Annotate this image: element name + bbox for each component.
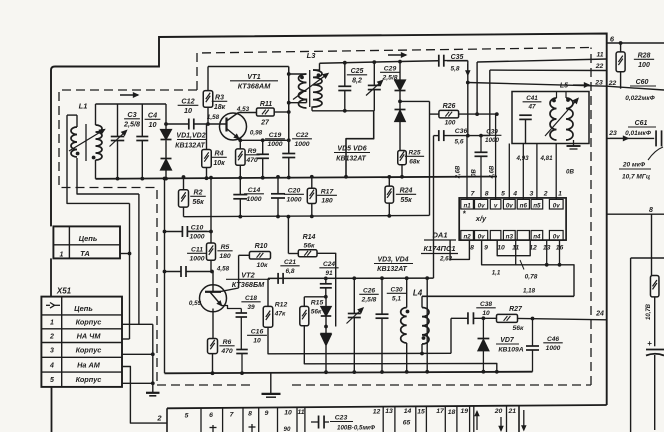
capacitor C11 (165, 266, 214, 277)
wire VT1 bias top (208, 66, 289, 68)
capacitor C3 label (123, 110, 140, 129)
svg-text:R4: R4 (215, 151, 224, 158)
label 22 right (608, 80, 617, 87)
svg-text:2,6В: 2,6В (456, 165, 462, 179)
svg-text:4: 4 (49, 362, 54, 369)
wire antenna-left staircase to riser A (67, 115, 130, 203)
junction dot C26 bus (352, 370, 356, 374)
arrow down in strip (499, 417, 503, 431)
inductor L1 winding 2 (96, 104, 103, 179)
junction dot detector bus C24 (324, 277, 328, 281)
junction dot emitter-R9 (238, 138, 242, 142)
inductor L4 label (413, 289, 423, 298)
svg-text:55к: 55к (400, 197, 412, 204)
label voltage 4,81 (539, 155, 553, 162)
transistor VT1 label (230, 72, 278, 91)
dashed section boundary (bottom/right) (157, 48, 591, 386)
module outline border bottom-right segment (519, 404, 607, 407)
svg-text:С19: С19 (269, 132, 282, 139)
junction dot R25 bus (400, 175, 404, 179)
resistor R9 label (244, 148, 259, 164)
diode VD1 (161, 104, 172, 140)
capacitor C36 label (454, 128, 467, 146)
svg-text:1000: 1000 (267, 141, 282, 148)
resistor R27 (497, 314, 518, 322)
junction dot R14 feed (287, 215, 291, 219)
svg-text:С16: С16 (251, 329, 264, 336)
svg-text:4: 4 (512, 190, 517, 197)
label voltage 4,93 (515, 155, 529, 162)
diode VD7 (478, 318, 490, 371)
svg-text:С38: С38 (480, 301, 492, 308)
terminal dot L3 secondary (317, 73, 321, 77)
svg-text:С10: С10 (191, 225, 204, 232)
line 11 to IF module (477, 59, 607, 62)
svg-text:0v: 0v (553, 202, 560, 209)
label voltage 4,6V (490, 165, 496, 179)
wire L1 winding bottom staircase to riser B (77, 158, 139, 194)
svg-text:С29: С29 (384, 66, 397, 73)
wire R2 feed long (184, 215, 430, 216)
svg-text:0,01мкФ: 0,01мкФ (625, 130, 652, 137)
capacitor C4 (136, 104, 148, 179)
wire VT2 collector riser (238, 255, 240, 288)
svg-text:4,93: 4,93 (515, 155, 529, 162)
wire riser A down to X51 pin2 (129, 203, 131, 339)
capacitor C39 (475, 134, 488, 200)
svg-text:На АМ: На АМ (77, 360, 101, 369)
junction dot VD5 top (398, 60, 402, 64)
svg-text:0,59: 0,59 (189, 300, 202, 307)
resistor R28 label (634, 53, 654, 69)
svg-text:С26: С26 (363, 288, 375, 295)
module outline border segment between tables (50, 258, 52, 296)
junction dot riser bottom-wire (287, 101, 291, 105)
wire L3 secondary bottom rail (312, 110, 374, 112)
svg-text:Корпус: Корпус (76, 375, 102, 384)
svg-text:С3: С3 (127, 110, 136, 119)
svg-text:24: 24 (595, 311, 604, 318)
capacitor C11 label (187, 247, 207, 263)
wire R14 right drop (317, 253, 336, 326)
inductor L5 winding 2 (566, 92, 573, 141)
inductor L1 winding 1 (67, 115, 77, 157)
svg-text:R10: R10 (255, 243, 268, 250)
resistor right module (650, 276, 659, 347)
wire VD1 node to C12 (166, 123, 188, 125)
svg-text:22: 22 (595, 63, 604, 70)
label voltage 10,7V (646, 303, 652, 320)
wire VT1 emitter node (239, 139, 289, 141)
wire X51 pin1 (korpus) to riser (122, 323, 153, 325)
junction dot C36 line (466, 134, 470, 138)
svg-text:1000: 1000 (189, 256, 204, 263)
svg-text:18к: 18к (214, 104, 226, 111)
junction dot C24 bottom (324, 295, 328, 299)
svg-text:1: 1 (558, 190, 562, 197)
capacitor C21 label (280, 259, 299, 275)
label 23 left (594, 80, 603, 87)
resistor R12 label (274, 302, 288, 318)
junction dot ground rail top (163, 177, 167, 181)
connector table X51 (41, 297, 122, 387)
resistor R28 (616, 43, 625, 89)
wire line22 riser (489, 70, 491, 136)
svg-text:Цепь: Цепь (74, 304, 93, 313)
terminal dot L5 w1 (552, 99, 556, 103)
wire DA1 pin7 lead (466, 136, 468, 200)
svg-text:С24: С24 (323, 261, 335, 268)
wire L4 to C38 riser (450, 318, 452, 353)
wire ground riser X51 (152, 324, 154, 392)
resistor R25 (398, 151, 407, 177)
label 22 (595, 63, 604, 70)
terminal dot L4 w2 (422, 336, 426, 340)
capacitor C26 (variable) (347, 278, 364, 372)
svg-text:КВ132АТ: КВ132АТ (175, 143, 205, 150)
svg-text:0В: 0В (566, 169, 574, 176)
svg-text:п5: п5 (533, 202, 541, 209)
resistor R14 label (303, 234, 316, 250)
junction dot R11 riser (287, 110, 291, 114)
resistor R15 label (311, 300, 324, 316)
svg-text:С30: С30 (390, 287, 402, 294)
capacitor C4 label (145, 111, 161, 130)
resistor R10 label (255, 243, 268, 269)
capacitor C61 label (625, 120, 656, 137)
svg-text:90: 90 (284, 426, 291, 432)
junction dot R3 base node (206, 122, 210, 126)
junction dot VD7 tap (482, 316, 486, 320)
junction dot C20 wire (276, 215, 280, 219)
diodes VD5 VD6 label (334, 146, 370, 163)
svg-text:1000: 1000 (485, 137, 500, 144)
junction dot R26 line a (475, 112, 479, 116)
junction dot tank elbow bus (344, 175, 348, 179)
junction dot C14 wire (238, 215, 242, 219)
junction dot L4 tap (420, 352, 424, 356)
wire tank top rail (96, 103, 167, 105)
capacitor C23 label (330, 415, 375, 432)
svg-text:5,8: 5,8 (450, 66, 459, 73)
svg-text:10: 10 (253, 338, 261, 345)
label voltage 2,6V (456, 165, 462, 179)
label voltage 2,63 (439, 256, 453, 263)
junction dot detector bus end (425, 276, 429, 280)
capacitor C60 label (625, 79, 656, 102)
transistor VT1 (220, 113, 247, 141)
svg-text:С18: С18 (245, 295, 257, 302)
svg-text:Цепь: Цепь (79, 234, 98, 243)
svg-text:10: 10 (482, 310, 490, 317)
resistor R4 (202, 124, 212, 178)
junction dot L4 w1 bus (405, 370, 409, 374)
transistor VT2 label (226, 271, 270, 290)
capacitor C16 label (247, 329, 267, 345)
wire tank top rail 2 (320, 61, 439, 64)
wire X51 pin4 (Na AM) to bottom connector (122, 367, 167, 424)
svg-text:27: 27 (260, 120, 270, 127)
svg-text:180: 180 (321, 198, 333, 205)
transformer L3 label (307, 51, 317, 60)
capacitor C29 (variable) (366, 62, 383, 111)
transistor VT2 (200, 285, 239, 312)
right module left wire (631, 258, 664, 432)
resistor R4 label (211, 151, 227, 167)
capacitor C30 (376, 278, 389, 372)
capacitor C41 label (523, 95, 542, 111)
label 8 (649, 207, 653, 214)
svg-text:6,8: 6,8 (285, 268, 294, 275)
resistor R3 (203, 67, 213, 125)
label voltage 0V pin1 (566, 169, 574, 176)
wire C24 node to R15 (304, 297, 326, 307)
terminal dot L1 winding2 (92, 156, 96, 160)
ground symbol L5 (567, 140, 581, 149)
wire R27 to output 24 (518, 318, 607, 319)
capacitor C19 label (265, 132, 285, 148)
signal-flow arrow on dashed border (top) (388, 53, 406, 57)
svg-text:23: 23 (608, 130, 617, 137)
junction dot C10 right (209, 230, 213, 234)
junction dot C29 top (372, 60, 376, 64)
svg-text:8,2: 8,2 (352, 77, 362, 84)
svg-text:10: 10 (149, 120, 157, 129)
junction dot C22 bus (287, 176, 291, 180)
svg-text:2,5/8: 2,5/8 (361, 296, 377, 303)
svg-text:С46: С46 (547, 336, 559, 343)
capacitor C25 (338, 63, 351, 111)
transformer L3 tuning arrow (293, 74, 328, 100)
svg-text:2: 2 (156, 414, 162, 423)
inductor L1 label (79, 102, 88, 111)
wire DA1 pin2 lead (536, 144, 538, 200)
capacitor C26 label (359, 288, 378, 304)
svg-text:11: 11 (297, 409, 304, 416)
svg-text:4,81: 4,81 (539, 155, 553, 162)
junction dot detector bus C30 (380, 276, 384, 280)
svg-text:0,98: 0,98 (250, 130, 263, 137)
right module wire top (607, 213, 664, 215)
svg-text:R3: R3 (215, 95, 224, 102)
terminal dot L5 w2 (566, 98, 570, 102)
capacitor C46 (526, 319, 539, 372)
svg-text:С60: С60 (636, 79, 649, 86)
capacitor C12 label (178, 97, 199, 116)
label 23 bottom right (608, 130, 617, 137)
capacitor C22 label (292, 132, 312, 148)
wire diode mid node (325, 316, 327, 334)
label X51 (56, 287, 72, 296)
svg-text:VD3, VD4: VD3, VD4 (377, 257, 408, 264)
svg-text:12: 12 (373, 409, 381, 416)
svg-text:5: 5 (501, 190, 505, 197)
svg-text:С36: С36 (455, 128, 468, 135)
svg-text:10: 10 (184, 106, 192, 115)
wire VT2 base lead (211, 260, 213, 292)
capacitor C14 label (244, 187, 264, 203)
resistor R17 label (317, 189, 337, 205)
bottom connector pin numbers (185, 408, 517, 420)
diode VD7 label (496, 337, 524, 354)
capacitor C16 (236, 350, 248, 374)
capacitor C46 label (543, 336, 562, 352)
svg-text:14: 14 (404, 408, 412, 415)
resistor R9 (236, 140, 246, 178)
svg-text:21: 21 (508, 408, 517, 415)
svg-text:L1: L1 (79, 102, 88, 111)
svg-text:R15: R15 (311, 300, 324, 307)
svg-text:56к: 56к (192, 199, 204, 206)
svg-text:1,1: 1,1 (492, 270, 501, 277)
capacitor C39 label (483, 129, 502, 145)
resistor R24 (385, 177, 394, 216)
wire DA1 return to detector (422, 295, 574, 297)
junction dot R6 bus (211, 371, 215, 375)
inductor L4 winding 2 (422, 296, 429, 353)
capacitor C14 (233, 178, 247, 217)
wire DA1 pin1 lead (555, 144, 557, 200)
label 11 (596, 52, 603, 59)
svg-text:R26: R26 (443, 103, 456, 110)
junction dot VD node (164, 122, 168, 126)
wire ground rail left (164, 179, 166, 374)
transformer L3 primary (289, 74, 307, 108)
svg-text:2: 2 (543, 190, 548, 197)
capacitor C38 (451, 312, 497, 324)
svg-text:100: 100 (638, 62, 650, 69)
resistor R5 label (217, 244, 232, 260)
junction dot R5 bus (209, 176, 213, 180)
svg-text:20 мкФ: 20 мкФ (622, 162, 646, 169)
capacitor C29 label (380, 66, 400, 82)
junction dot C11 left (163, 270, 167, 274)
label voltage 1,1 (492, 270, 501, 277)
wire R5 riser (210, 178, 212, 244)
svg-text:470: 470 (220, 348, 233, 355)
wire DA1 pin11 stub (515, 240, 517, 265)
label voltage 1,18 (523, 288, 536, 295)
resistor R24 label (396, 188, 416, 204)
electrolytic capacitor right (646, 339, 664, 430)
svg-text:18: 18 (448, 409, 456, 416)
svg-text:Корпус: Корпус (76, 346, 102, 355)
svg-text:1000: 1000 (286, 197, 301, 204)
label 65 (403, 420, 411, 427)
svg-text:R5: R5 (221, 244, 230, 251)
svg-text:1: 1 (50, 319, 54, 326)
wire X51 pin2 (NA ChM) stub (122, 338, 130, 340)
junction dot R17 wire (310, 215, 314, 219)
svg-text:С39: С39 (486, 129, 498, 136)
capacitor C25 label (347, 68, 367, 84)
wire DA1 pin4 lead (508, 144, 510, 200)
capacitor C21 (278, 273, 283, 284)
svg-text:п4: п4 (533, 233, 541, 240)
wire R14 left (288, 217, 298, 254)
svg-text:п1: п1 (463, 202, 471, 209)
svg-text:КВ132АТ: КВ132АТ (377, 266, 407, 273)
label 6 (610, 35, 615, 44)
module outline border segment below X51 (51, 387, 53, 432)
wire R11 to L3 riser (274, 111, 289, 113)
svg-text:19: 19 (461, 408, 469, 415)
svg-text:С23: С23 (335, 415, 348, 422)
terminal mark strip cell 6 (210, 425, 217, 432)
wire DA1 pin3 lead (522, 144, 524, 200)
junction dot riser-emitter (287, 138, 291, 142)
capacitor C20 label (284, 188, 304, 204)
arrow down outside strip (522, 410, 526, 430)
junction dot R26 line b (495, 112, 499, 116)
svg-text:1000: 1000 (189, 234, 204, 241)
svg-text:0,78: 0,78 (525, 274, 538, 281)
svg-text:3: 3 (530, 190, 534, 197)
line 22 to IF module (490, 69, 607, 71)
capacitor C22 (282, 154, 295, 178)
wire X51 pin3 (korpus) (122, 353, 153, 355)
dashed section boundary (top/left) (59, 48, 591, 386)
resistor R3 label (212, 95, 228, 111)
resistor R6 label (219, 339, 234, 355)
junction dot C3 bus (116, 177, 120, 181)
resistor R15 (300, 306, 309, 325)
svg-text:91: 91 (325, 270, 333, 277)
svg-text:39: 39 (247, 304, 255, 311)
wire DA1 pin13 stub (546, 240, 548, 265)
IC DA1 label (421, 231, 458, 254)
svg-text:х/у: х/у (475, 214, 487, 223)
inductor L5 tuning arrow (545, 99, 578, 137)
svg-text:R6: R6 (223, 339, 232, 346)
junction dot C25 bottom (343, 109, 347, 113)
junction dot VT2 base (210, 270, 214, 274)
svg-text:КВ132АТ: КВ132АТ (336, 156, 366, 163)
junction dot R17 bus (310, 175, 314, 179)
junction dot R24 wire (387, 214, 391, 218)
resistor R25 label (405, 150, 424, 166)
wire C35 output down (466, 61, 470, 136)
svg-text:R2: R2 (194, 190, 203, 197)
diode VD5 (395, 62, 406, 91)
svg-text:0В: 0В (472, 168, 478, 176)
svg-text:С35: С35 (451, 54, 464, 61)
junction dot detector bus L4 (405, 276, 409, 280)
label 2 on Na AM wire (156, 414, 162, 423)
ground symbol main (262, 373, 281, 397)
svg-text:1000: 1000 (294, 141, 309, 148)
svg-text:С22: С22 (296, 132, 309, 139)
wire VD6 node to R26 riser (400, 100, 430, 102)
svg-text:9: 9 (484, 244, 488, 251)
signal-flow arrow on dashed border (left) (120, 93, 138, 97)
junction dot X51 pin5 (151, 381, 155, 385)
svg-text:Х51: Х51 (56, 287, 72, 296)
svg-text:ТА: ТА (80, 249, 90, 258)
svg-text:23: 23 (594, 80, 603, 87)
svg-text:С25: С25 (351, 68, 364, 75)
svg-text:R12: R12 (275, 302, 288, 309)
resistor R2 (179, 177, 189, 217)
resistor R11 (257, 108, 275, 116)
svg-text:5,1: 5,1 (392, 295, 401, 302)
connector table TA (53, 226, 120, 258)
wire DA1 pin9 bus (482, 240, 574, 296)
resistor R10 (239, 252, 271, 259)
wire line11 riser (476, 62, 478, 114)
junction dot line23 (466, 81, 470, 85)
resistor R6 (208, 339, 218, 374)
